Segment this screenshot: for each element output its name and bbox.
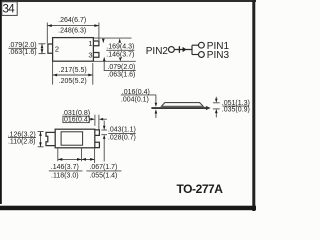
- svg-text:.205(5.2): .205(5.2): [59, 78, 87, 85]
- svg-text:.146(3.7): .146(3.7): [51, 164, 79, 171]
- svg-text:34: 34: [3, 4, 16, 16]
- svg-text:PIN2: PIN2: [146, 46, 169, 57]
- svg-text:.035(0.9): .035(0.9): [222, 107, 250, 114]
- svg-text:.004(0.1): .004(0.1): [121, 96, 149, 103]
- svg-text:.079(2.0): .079(2.0): [107, 64, 135, 71]
- svg-text:.248(6.3): .248(6.3): [58, 28, 86, 35]
- svg-text:2: 2: [55, 44, 59, 53]
- svg-text:PIN3: PIN3: [207, 50, 230, 61]
- svg-text:.146(3.7): .146(3.7): [106, 51, 134, 58]
- svg-text:3: 3: [88, 51, 92, 60]
- svg-text:1: 1: [88, 39, 92, 48]
- svg-text:.028(0.7): .028(0.7): [108, 135, 136, 142]
- svg-text:.264(6.7): .264(6.7): [58, 17, 86, 24]
- svg-text:.217(5.5): .217(5.5): [59, 67, 87, 74]
- svg-text:.067(1.7): .067(1.7): [89, 164, 117, 171]
- svg-text:.016(0.4): .016(0.4): [122, 89, 150, 96]
- svg-text:.063(1.6): .063(1.6): [9, 49, 37, 56]
- svg-text:.016(0.4): .016(0.4): [62, 117, 90, 124]
- svg-text:.110(2.8): .110(2.8): [8, 138, 36, 145]
- svg-text:.118(3.0): .118(3.0): [51, 173, 79, 180]
- svg-text:TO-277A: TO-277A: [177, 182, 224, 196]
- svg-text:.063(1.6): .063(1.6): [107, 72, 135, 79]
- svg-text:.169(4.3): .169(4.3): [106, 44, 134, 51]
- svg-text:.055(1.4): .055(1.4): [89, 173, 117, 180]
- svg-text:.043(1.1): .043(1.1): [108, 127, 136, 134]
